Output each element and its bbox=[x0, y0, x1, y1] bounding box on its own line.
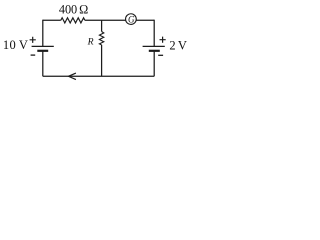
battery 2V short plate (-) bbox=[149, 50, 160, 52]
svg-text:10 V: 10 V bbox=[3, 38, 28, 52]
svg-text:R: R bbox=[87, 37, 94, 48]
svg-text:G: G bbox=[128, 14, 135, 24]
wire: left battery up to top-left corner bbox=[42, 20, 44, 47]
wire: right side down to battery bbox=[153, 20, 155, 47]
minus sign of 2V battery bbox=[158, 54, 163, 56]
svg-text:400 Ω: 400 Ω bbox=[59, 3, 88, 17]
wire: top-left segment bbox=[43, 19, 61, 21]
wire: left side bottom-left corner up to battery bbox=[42, 51, 44, 77]
background bbox=[0, 0, 208, 86]
wire: right battery to bottom-right corner bbox=[153, 51, 155, 77]
plus sign of 2V battery bbox=[160, 37, 166, 43]
wire: middle branch top lead bbox=[101, 20, 103, 31]
wire: bottom rail bbox=[43, 75, 154, 77]
wire: middle branch bottom lead bbox=[101, 45, 103, 76]
battery 10V short plate (-) bbox=[37, 50, 48, 52]
plus sign of 10V battery bbox=[30, 37, 36, 43]
minus sign of 10V battery bbox=[31, 54, 36, 56]
current direction arrowhead (pointing left) bbox=[69, 73, 76, 80]
svg-text:2 V: 2 V bbox=[169, 38, 186, 52]
resistor R (vertical zigzag, middle branch) bbox=[99, 32, 103, 45]
resistor 400 ohm (horizontal zigzag, top wire) bbox=[61, 18, 85, 23]
battery 2V long plate (+) bbox=[143, 45, 165, 47]
wire: top middle segment (junction to galvanometer) bbox=[85, 19, 126, 21]
battery 10V long plate (+) bbox=[32, 45, 54, 47]
wire: galvanometer to top-right corner bbox=[136, 19, 154, 21]
galvanometer U1 circle bbox=[126, 14, 137, 25]
